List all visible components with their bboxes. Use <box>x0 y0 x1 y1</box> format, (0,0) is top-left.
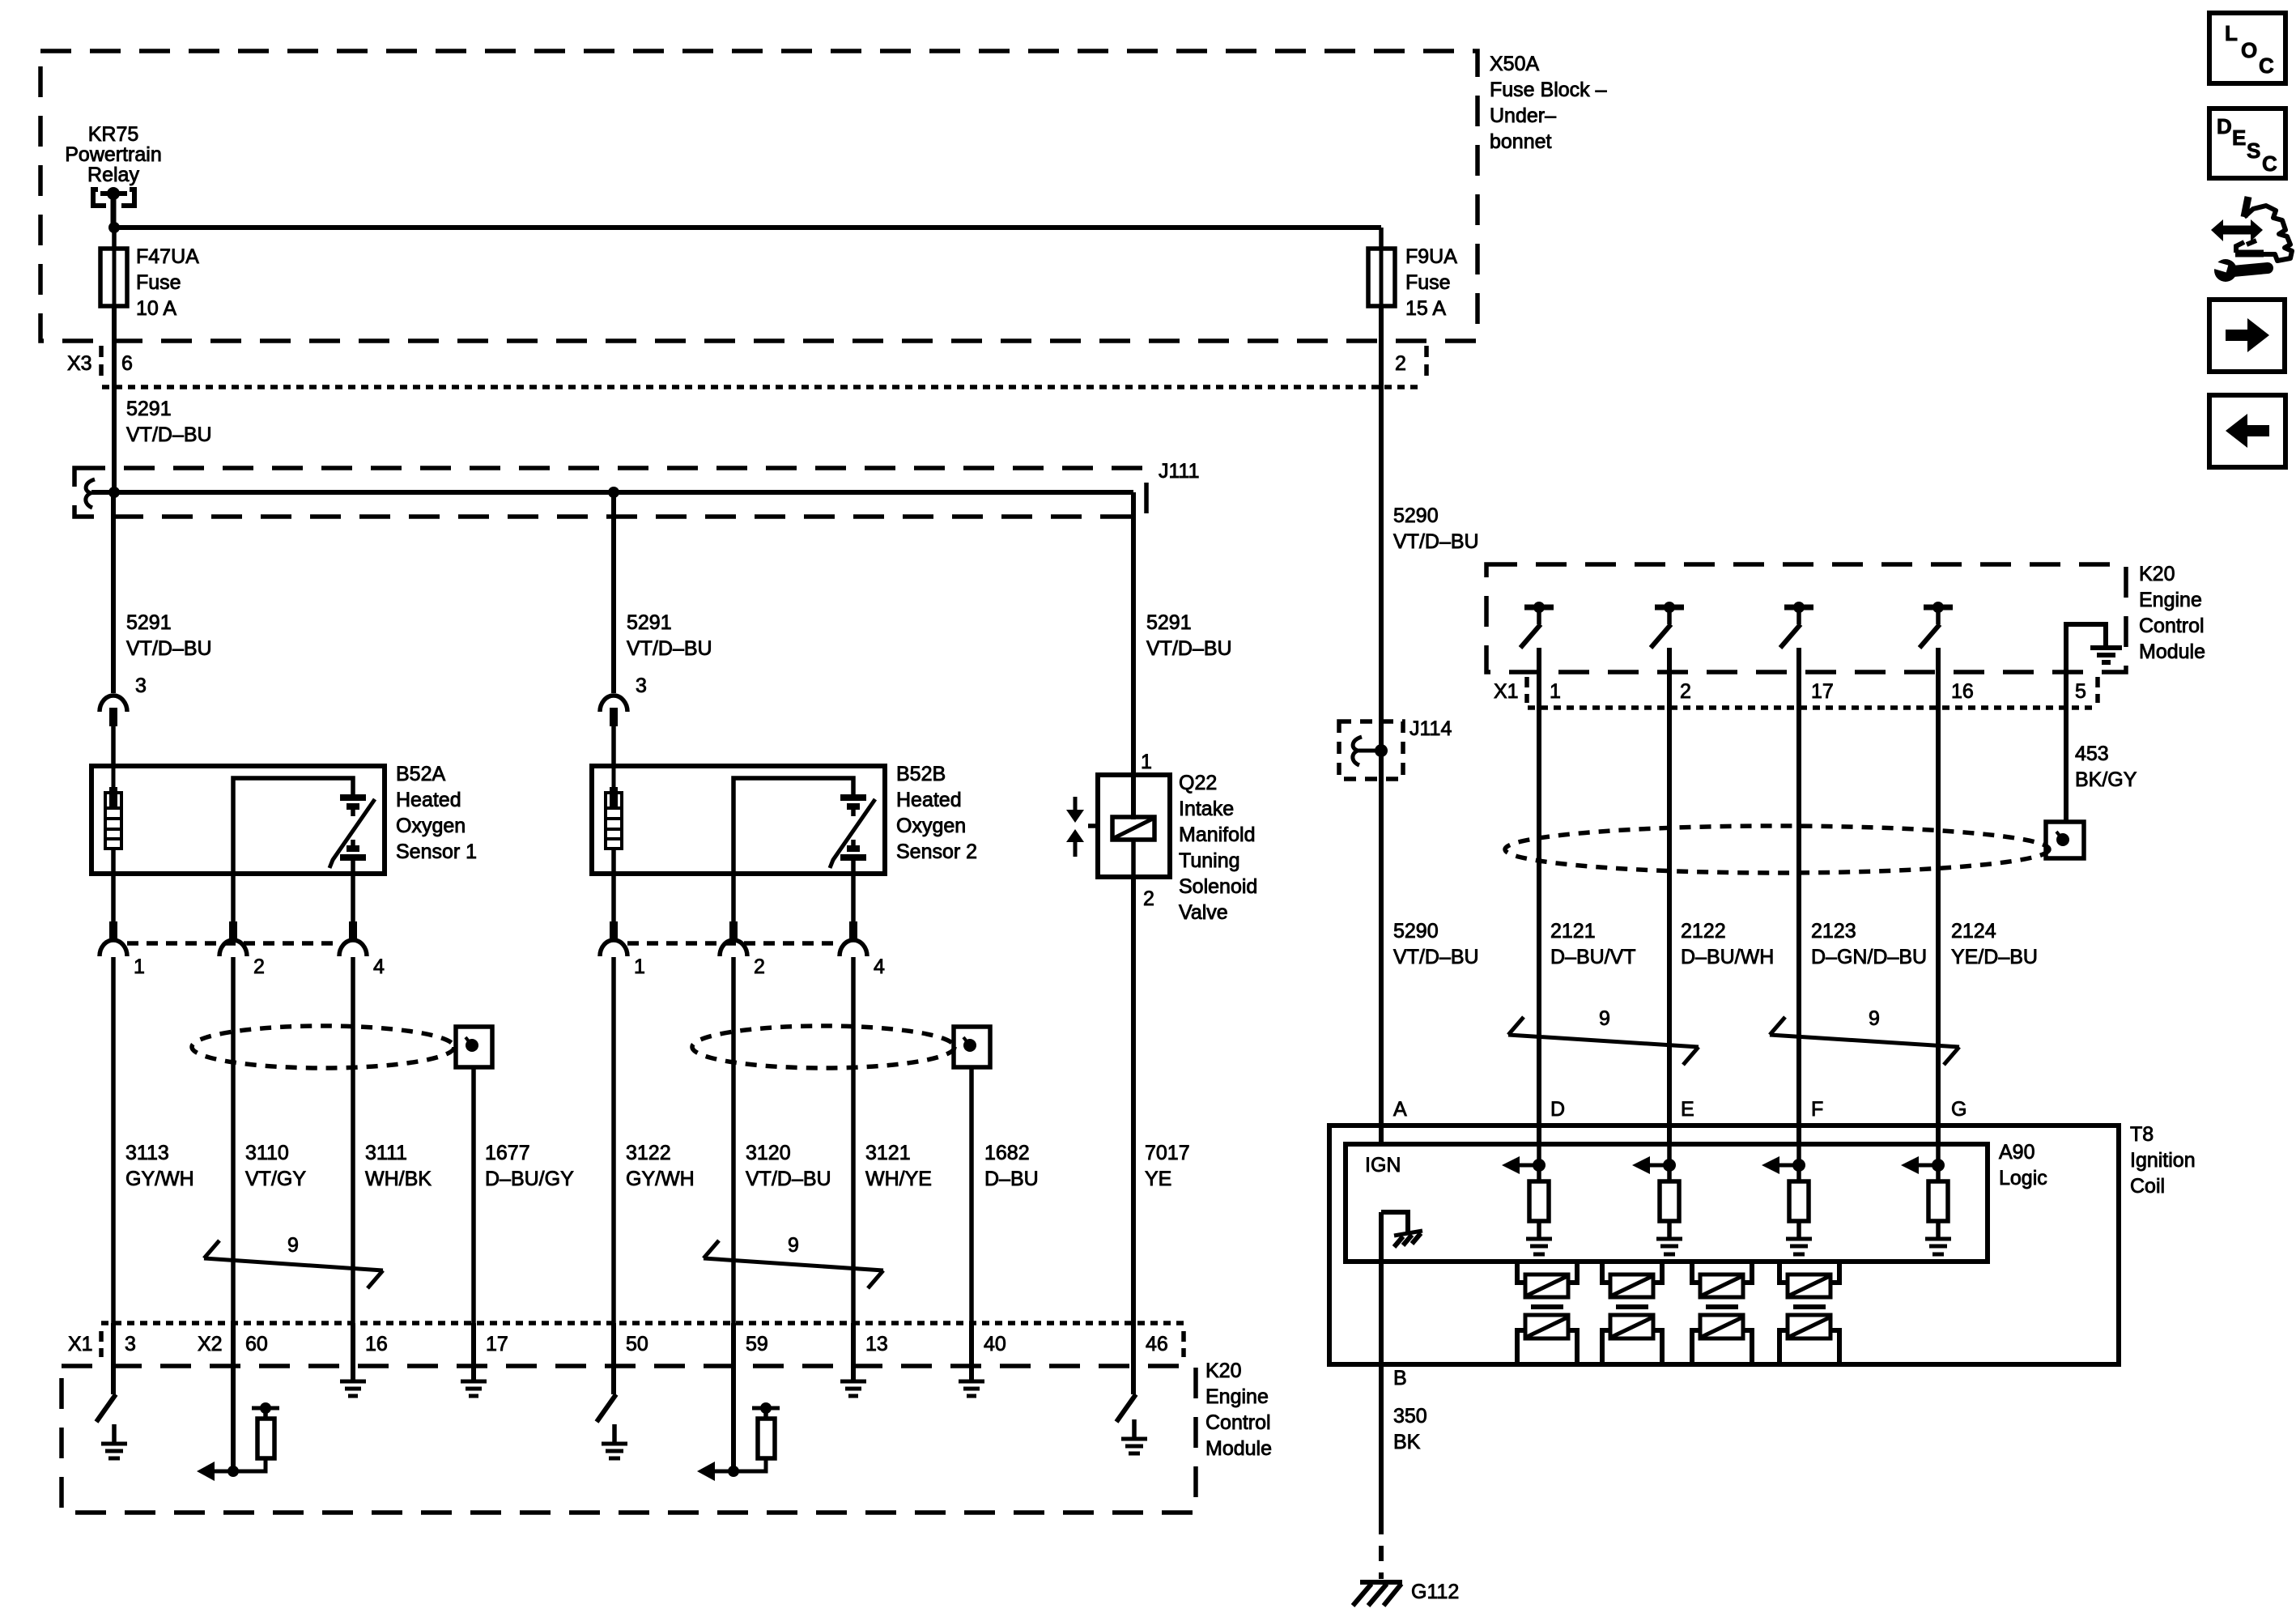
connector row X1 (top) <box>1494 677 2098 708</box>
label T8 Ignition Coil <box>2130 1123 2196 1198</box>
svg-text:1677: 1677 <box>485 1142 530 1164</box>
heater element (B52B) <box>606 726 622 921</box>
svg-text:9: 9 <box>287 1234 299 1257</box>
svg-text:KR75: KR75 <box>88 123 139 146</box>
label A90 Logic <box>1999 1141 2047 1189</box>
ignition coil T8 box <box>1329 1126 2119 1364</box>
svg-text:Fuse Block –: Fuse Block – <box>1490 79 1607 101</box>
wire IGN return to pin B <box>1379 1212 1384 1364</box>
ECM switch to ground pin 46 <box>1116 1323 1147 1453</box>
svg-text:J114: J114 <box>1409 717 1452 740</box>
ECM driver switch pin 16 <box>1920 602 1953 1144</box>
svg-text:WH/YE: WH/YE <box>865 1168 932 1190</box>
svg-text:7017: 7017 <box>1145 1142 1190 1164</box>
ignition coil winding pair 3 <box>1692 1262 1752 1364</box>
ECM switch to ground pin 50 <box>597 1323 627 1458</box>
ground G112 symbol <box>1353 1582 1402 1606</box>
svg-text:15 A: 15 A <box>1405 297 1446 320</box>
logic cell for coil E <box>1632 1144 1682 1254</box>
svg-text:E: E <box>1681 1098 1694 1121</box>
svg-text:Intake: Intake <box>1179 798 1234 820</box>
svg-text:BK: BK <box>1393 1431 1421 1453</box>
svg-text:BK/GY: BK/GY <box>2075 768 2137 791</box>
ECM driver switch pin 17 <box>1780 602 1813 1144</box>
label Q22 Intake Manifold Tuning Solenoid Valve <box>1179 772 1257 924</box>
in-line connector pin 4 (B52A) <box>339 921 367 1323</box>
svg-text:VT/D–BU: VT/D–BU <box>1146 637 1232 660</box>
label B52A Heated Oxygen Sensor 1 <box>396 763 477 863</box>
wire 5291 from fuse F47UA down to J111 <box>112 306 117 492</box>
in-line connector pin 2 (B52B) <box>720 921 747 1323</box>
solenoid valve Q22 <box>1088 775 1170 877</box>
label F9UA Fuse 15 A <box>1405 245 1457 320</box>
in-line connector pin 1 (B52B) <box>600 921 627 1323</box>
ECM switch to ground pin 3 <box>96 1323 127 1458</box>
dashed wire to G112 <box>1379 1519 1384 1579</box>
label circuit 5291 VT/D-BU (B52A branch) <box>126 611 212 660</box>
svg-text:9: 9 <box>788 1234 799 1257</box>
harness count slash 9 (sensor 2) <box>704 1234 883 1288</box>
svg-text:5291: 5291 <box>627 611 672 634</box>
in-line connector pin 3 (B52B) <box>600 696 627 766</box>
svg-text:Logic: Logic <box>1999 1167 2047 1189</box>
svg-text:9: 9 <box>1869 1007 1880 1030</box>
label circuit 7017 YE <box>1145 1142 1190 1190</box>
sensing cell (B52B) <box>733 778 875 921</box>
svg-text:bonnet: bonnet <box>1490 130 1552 153</box>
svg-text:9: 9 <box>1599 1007 1610 1030</box>
label circuit 5291 VT/D-BU (Q22 branch) <box>1146 611 1232 660</box>
label circuit 3113 GY/WH <box>125 1142 194 1190</box>
svg-text:Solenoid: Solenoid <box>1179 875 1257 898</box>
svg-text:4: 4 <box>874 955 885 978</box>
junction block J111 dashed outline <box>74 468 1146 517</box>
label B52B Heated Oxygen Sensor 2 <box>896 763 977 863</box>
svg-text:2121: 2121 <box>1550 920 1596 943</box>
svg-text:GY/WH: GY/WH <box>626 1168 695 1190</box>
in-line connector pin 4 (B52B) <box>840 921 867 1323</box>
svg-text:B52A: B52A <box>396 763 445 785</box>
label circuit 3120 VT/D-BU <box>746 1142 831 1190</box>
svg-text:Fuse: Fuse <box>136 271 181 294</box>
label circuit 3111 WH/BK <box>365 1142 432 1190</box>
shield drain ellipse <box>692 1026 955 1068</box>
svg-text:16: 16 <box>365 1333 388 1355</box>
sensing cell (B52A) <box>233 778 375 921</box>
svg-text:X50A: X50A <box>1490 53 1539 75</box>
ECM pull-up and arrow pin 59 <box>697 1323 780 1481</box>
label circuit 5291 VT/D-BU (upper) <box>126 398 212 446</box>
ECM K20 dashed outline (bottom) <box>62 1366 1196 1513</box>
svg-text:Oxygen: Oxygen <box>896 815 966 837</box>
label circuit 3121 WH/YE <box>865 1142 932 1190</box>
svg-text:Relay: Relay <box>87 164 139 186</box>
ignition coil winding pair 1 <box>1517 1262 1577 1364</box>
svg-text:60: 60 <box>245 1333 268 1355</box>
svg-text:Q22: Q22 <box>1179 772 1217 794</box>
svg-text:1: 1 <box>134 955 145 978</box>
svg-text:Powertrain: Powertrain <box>65 143 162 166</box>
svg-text:D: D <box>2217 114 2232 138</box>
svg-text:350: 350 <box>1393 1405 1427 1428</box>
logic cell for coil G <box>1901 1144 1951 1254</box>
junction node at relay output <box>108 222 120 233</box>
wire 7017 from Q22 to ECM <box>1131 877 1136 1323</box>
ECM driver switch pin 2 <box>1651 602 1684 1144</box>
svg-text:J111: J111 <box>1159 460 1200 483</box>
svg-text:3: 3 <box>125 1333 136 1355</box>
ECM ground pin 17 <box>461 1323 487 1396</box>
icon LOC <box>2209 13 2285 83</box>
svg-text:Engine: Engine <box>1205 1385 1269 1408</box>
wire 5291 down to B52B pin 3 <box>611 492 616 693</box>
svg-text:16: 16 <box>1951 680 1974 703</box>
svg-text:40: 40 <box>984 1333 1006 1355</box>
svg-text:GY/WH: GY/WH <box>125 1168 194 1190</box>
in-line connector pin 2 (B52A) <box>219 921 247 1323</box>
label circuit 3110 VT/GY <box>245 1142 306 1190</box>
svg-text:X2: X2 <box>198 1333 223 1355</box>
svg-text:1682: 1682 <box>984 1142 1030 1164</box>
svg-text:5290: 5290 <box>1393 504 1439 527</box>
shield termination box <box>456 1027 492 1323</box>
shield termination box <box>954 1027 990 1323</box>
svg-text:D–BU/GY: D–BU/GY <box>485 1168 574 1190</box>
svg-text:F: F <box>1811 1098 1823 1121</box>
label circuit 1682 D-BU <box>984 1142 1039 1190</box>
connector row X1/X2 (bottom) <box>68 1323 1184 1357</box>
svg-text:46: 46 <box>1146 1333 1168 1355</box>
svg-text:WH/BK: WH/BK <box>365 1168 432 1190</box>
svg-text:1: 1 <box>1141 751 1152 773</box>
svg-text:Control: Control <box>1205 1411 1271 1434</box>
svg-text:Module: Module <box>2139 640 2205 663</box>
svg-text:D–BU/WH: D–BU/WH <box>1681 946 1774 968</box>
label circuit 5290 VT/D-BU <box>1393 504 1479 553</box>
shield termination box 453 <box>2046 822 2084 858</box>
svg-text:4: 4 <box>373 955 385 978</box>
icon DESC <box>2209 109 2285 178</box>
wire bus from relay to fuse F9UA <box>114 225 1381 230</box>
svg-text:2: 2 <box>754 955 765 978</box>
svg-text:1: 1 <box>1550 680 1561 703</box>
svg-text:Coil: Coil <box>2130 1175 2165 1198</box>
wire J111 bus <box>91 490 1133 495</box>
svg-text:D: D <box>1550 1098 1565 1121</box>
svg-text:5291: 5291 <box>126 611 172 634</box>
junction node J111/B52B <box>608 487 619 498</box>
harness count slash 9 (coils D/E) <box>1508 1007 1699 1065</box>
svg-text:1: 1 <box>634 955 645 978</box>
logic cell for coil F <box>1762 1144 1812 1254</box>
svg-text:Oxygen: Oxygen <box>396 815 466 837</box>
wire 5290 from fuse F9UA down to T8 pin A <box>1379 306 1384 1144</box>
relay KR75 contact symbol <box>93 187 134 225</box>
icon service glove and wrench <box>2211 197 2292 282</box>
junction node J114 <box>1375 744 1388 757</box>
connector dashed tie (B52A) <box>127 941 339 946</box>
svg-text:3111: 3111 <box>365 1142 407 1164</box>
svg-text:VT/D–BU: VT/D–BU <box>126 637 212 660</box>
label K20 Engine Control Module (top) <box>2139 563 2205 663</box>
svg-text:13: 13 <box>865 1333 888 1355</box>
svg-text:5: 5 <box>2075 680 2086 703</box>
svg-text:C: C <box>2259 53 2274 78</box>
svg-text:A: A <box>1393 1098 1407 1121</box>
valve actuator arrows (Q22) <box>1066 797 1084 857</box>
svg-text:VT/D–BU: VT/D–BU <box>627 637 712 660</box>
svg-text:5291: 5291 <box>126 398 172 420</box>
svg-text:VT/D–BU: VT/D–BU <box>126 423 212 446</box>
ECM pull-up and arrow pin 60 <box>197 1323 279 1481</box>
label circuit 3122 GY/WH <box>626 1142 695 1190</box>
svg-text:2: 2 <box>1680 680 1691 703</box>
ECM K20 dashed outline (top) <box>1486 564 2126 672</box>
splice symbol J114 <box>1353 737 1362 765</box>
svg-text:K20: K20 <box>1205 1360 1241 1382</box>
svg-text:17: 17 <box>486 1333 508 1355</box>
svg-text:D–BU/VT: D–BU/VT <box>1550 946 1636 968</box>
connector row X3 pin 6 <box>67 346 133 378</box>
svg-text:3122: 3122 <box>626 1142 671 1164</box>
svg-text:Module: Module <box>1205 1437 1272 1460</box>
svg-text:2: 2 <box>1143 887 1154 910</box>
svg-text:L: L <box>2225 21 2238 45</box>
label circuit 2122 D-BU/WH <box>1681 920 1774 968</box>
svg-text:Heated: Heated <box>396 789 461 811</box>
svg-text:VT/D–BU: VT/D–BU <box>1393 946 1479 968</box>
svg-text:K20: K20 <box>2139 563 2175 585</box>
svg-text:T8: T8 <box>2130 1123 2154 1146</box>
junction node J111/B52A <box>108 487 120 498</box>
ECM ground pin 13 <box>840 1323 866 1396</box>
svg-text:X3: X3 <box>67 352 92 375</box>
sensor B52A box <box>91 766 385 874</box>
wire 350 BK <box>1379 1364 1384 1519</box>
svg-text:YE: YE <box>1145 1168 1171 1190</box>
svg-text:2123: 2123 <box>1811 920 1856 943</box>
svg-text:3: 3 <box>636 674 647 697</box>
svg-text:3120: 3120 <box>746 1142 791 1164</box>
fuse block X50A dashed outline <box>40 51 1478 341</box>
label X50A Fuse Block - Underbonnet <box>1490 53 1607 153</box>
fuse block output dotted row <box>102 385 1423 389</box>
svg-text:5290: 5290 <box>1393 920 1439 943</box>
svg-text:X1: X1 <box>68 1333 93 1355</box>
in-line connector pin 3 (B52A) <box>100 492 127 766</box>
logic cell for coil D <box>1502 1144 1552 1254</box>
svg-text:Fuse: Fuse <box>1405 271 1451 294</box>
svg-text:B52B: B52B <box>896 763 946 785</box>
harness count slash 9 (coils F/G) <box>1770 1007 1959 1065</box>
sensor B52B box <box>592 766 885 874</box>
svg-text:Under–: Under– <box>1490 104 1556 127</box>
label circuit 1677 D-BU/GY <box>485 1142 574 1190</box>
svg-text:D–GN/D–BU: D–GN/D–BU <box>1811 946 1927 968</box>
label F47UA Fuse 10 A <box>136 245 199 320</box>
svg-text:X1: X1 <box>1494 680 1519 703</box>
svg-text:3110: 3110 <box>245 1142 289 1164</box>
svg-text:6: 6 <box>121 352 133 375</box>
icon arrow left <box>2209 395 2285 467</box>
svg-text:C: C <box>2262 151 2277 176</box>
svg-text:Sensor 2: Sensor 2 <box>896 840 977 863</box>
svg-text:VT/D–BU: VT/D–BU <box>746 1168 831 1190</box>
logic module A90 box <box>1346 1144 1988 1262</box>
svg-text:3121: 3121 <box>865 1142 911 1164</box>
svg-text:Engine: Engine <box>2139 589 2202 611</box>
in-line connector pin 1 (B52A) <box>100 921 127 1323</box>
svg-text:YE/D–BU: YE/D–BU <box>1951 946 2038 968</box>
label circuit 453 BK/GY <box>2075 743 2137 791</box>
svg-text:F47UA: F47UA <box>136 245 199 268</box>
fuse F9UA <box>1368 228 1395 306</box>
label circuit 350 BK <box>1393 1405 1427 1453</box>
svg-text:VT/D–BU: VT/D–BU <box>1393 530 1479 553</box>
splice link J114 <box>1358 749 1381 753</box>
icon arrow right <box>2209 300 2285 372</box>
svg-text:S: S <box>2247 138 2260 163</box>
connector row pin 2 <box>1395 346 1426 378</box>
connector dashed tie (B52B) <box>627 941 840 946</box>
svg-text:Heated: Heated <box>896 789 962 811</box>
svg-text:Ignition: Ignition <box>2130 1149 2196 1172</box>
label circuit 2121 D-BU/VT <box>1550 920 1636 968</box>
IGN internal ground stub <box>1381 1212 1422 1247</box>
harness count slash 9 (sensor 1) <box>204 1234 383 1288</box>
svg-text:50: 50 <box>626 1333 648 1355</box>
svg-text:5291: 5291 <box>1146 611 1192 634</box>
svg-text:Tuning: Tuning <box>1179 849 1240 872</box>
ECM ground pin 16 <box>340 1323 366 1396</box>
svg-text:G112: G112 <box>1411 1581 1459 1603</box>
svg-text:F9UA: F9UA <box>1405 245 1457 268</box>
shield drain ellipse (ignition harness) <box>1505 826 2049 873</box>
label circuit 2124 YE/D-BU <box>1951 920 2038 968</box>
svg-text:G: G <box>1951 1098 1966 1121</box>
svg-text:2122: 2122 <box>1681 920 1726 943</box>
svg-text:17: 17 <box>1811 680 1834 703</box>
label circuit 5290 VT/D-BU (lower) <box>1393 920 1479 968</box>
svg-text:Manifold: Manifold <box>1179 823 1256 846</box>
svg-text:IGN: IGN <box>1365 1154 1401 1177</box>
svg-text:Valve: Valve <box>1179 901 1228 924</box>
svg-text:B: B <box>1393 1367 1407 1389</box>
label circuit 5291 VT/D-BU (B52B branch) <box>627 611 712 660</box>
ignition coil winding pair 4 <box>1779 1262 1839 1364</box>
svg-text:Control: Control <box>2139 615 2205 637</box>
label K20 Engine Control Module (bottom) <box>1205 1360 1272 1460</box>
fuse F47UA <box>100 228 127 306</box>
splice symbol J111 <box>86 479 95 508</box>
ECM ground pin 40 <box>959 1323 984 1396</box>
heater element (B52A) <box>105 726 121 921</box>
svg-text:453: 453 <box>2075 743 2109 765</box>
ECM driver switch pin 1 <box>1520 602 1554 1144</box>
svg-text:2: 2 <box>253 955 265 978</box>
wire 5291 down to Q22 <box>1131 492 1136 819</box>
svg-text:3113: 3113 <box>125 1142 169 1164</box>
svg-text:E: E <box>2232 126 2246 150</box>
svg-text:VT/GY: VT/GY <box>245 1168 306 1190</box>
svg-text:D–BU: D–BU <box>984 1168 1039 1190</box>
svg-text:Sensor 1: Sensor 1 <box>396 840 477 863</box>
svg-text:59: 59 <box>746 1333 768 1355</box>
svg-text:10 A: 10 A <box>136 297 176 320</box>
svg-text:O: O <box>2241 38 2257 62</box>
shield drain ellipse <box>192 1026 454 1068</box>
label circuit 2123 D-GN/D-BU <box>1811 920 1927 968</box>
svg-text:A90: A90 <box>1999 1141 2035 1164</box>
svg-text:2124: 2124 <box>1951 920 1996 943</box>
svg-text:3: 3 <box>135 674 147 697</box>
ignition coil winding pair 2 <box>1602 1262 1662 1364</box>
junction J114 dashed outline <box>1339 721 1403 779</box>
label KR75 Powertrain Relay <box>65 123 162 186</box>
svg-text:2: 2 <box>1395 352 1406 375</box>
ECM internal ground pin 5 <box>2066 624 2122 822</box>
